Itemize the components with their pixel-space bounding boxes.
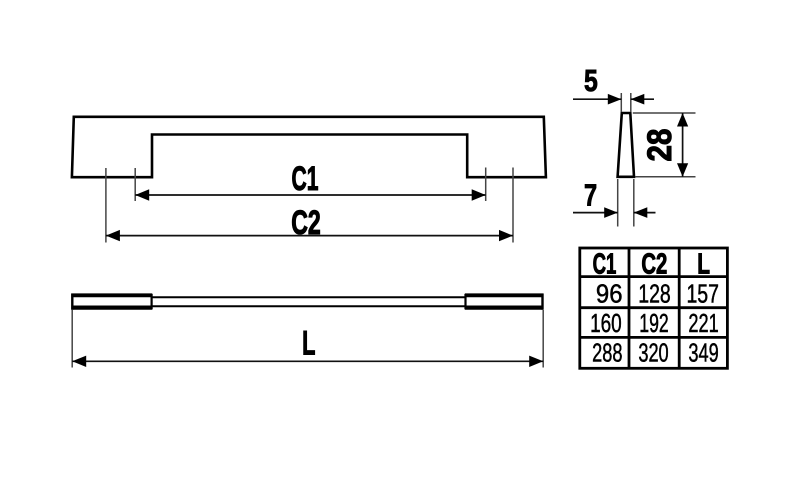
table row divider 1 [580,275,728,278]
dimension line 5 left segment [573,98,621,100]
extension line L right [542,310,544,368]
plan view right foot inner step [464,294,466,309]
table column divider 2 [678,248,681,368]
svg-text:96: 96 [596,280,623,309]
dimension line C2 [106,235,513,237]
table cell 288 [592,338,622,367]
plan view right foot top line [465,293,544,297]
dimension line 5 right segment [631,98,654,100]
svg-text:5: 5 [584,63,598,97]
label 5 [584,63,598,97]
table row divider 3 [580,336,728,339]
dimension line 28 [682,113,684,177]
plan view right foot end edge [541,294,543,310]
table cell 160 [590,308,622,338]
extension line 5 right [630,93,632,112]
svg-text:320: 320 [638,338,668,367]
arrow C2 left [106,230,120,241]
dimension line L [72,360,543,362]
svg-text:C1: C1 [292,159,319,197]
arrow 7 left [604,207,618,218]
table cell 221 [688,309,718,338]
extension line 5 left [620,93,622,112]
extension line C1 left [134,168,136,201]
svg-text:128: 128 [638,279,671,308]
handle front view outline [72,117,546,177]
table row divider 2 [580,306,728,309]
label L [302,325,315,363]
extension line 7 left [617,179,619,227]
table header C2 [641,248,667,280]
arrow 5 right [631,94,645,105]
arrow C1 right [472,189,486,200]
dimension line 7 right segment [634,212,656,214]
table column divider 1 [628,248,631,368]
extension line C2 left [105,168,107,243]
table outer border [580,248,728,368]
table cell 192 [639,309,668,338]
arrow L right [529,356,543,367]
table cell 157 [686,279,719,308]
plan view right foot bottom line [465,306,544,310]
table cell 320 [638,338,668,367]
side view trapezoid profile [618,113,634,177]
arrow 7 right [634,207,648,218]
arrow 28 bottom [677,163,688,177]
label 28 (rotated) [640,129,678,162]
extension line 28 bottom [635,176,696,178]
table cell 349 [688,338,718,367]
svg-text:160: 160 [590,308,622,338]
label 7 [584,177,597,212]
dimension line C1 [135,194,486,196]
table cell 128 [638,279,671,308]
plan view left foot inner step [151,294,153,309]
svg-text:221: 221 [688,309,718,338]
extension line C1 right [485,168,487,202]
plan view left foot end edge [71,294,73,310]
arrow C2 right [499,230,513,241]
svg-text:C2: C2 [641,248,667,280]
extension line 28 top [633,112,696,114]
table header C1 [593,248,617,280]
svg-text:7: 7 [584,177,597,212]
plan view left foot bottom line [71,306,152,310]
svg-text:349: 349 [688,338,718,367]
arrow C1 left [135,189,149,200]
svg-text:C1: C1 [593,248,617,280]
svg-text:L: L [302,325,315,363]
svg-text:157: 157 [686,279,719,308]
plan view left foot top line [71,293,152,297]
plan view middle tube bottom line [152,305,465,307]
svg-text:L: L [697,248,710,280]
table cell 96 [596,280,623,309]
label C2 [291,205,321,242]
table header L [697,248,710,280]
arrow 28 top [677,113,688,127]
extension line 7 right [633,179,635,227]
svg-text:288: 288 [592,338,622,367]
svg-text:192: 192 [639,309,668,338]
label C1 [292,159,319,197]
svg-text:28: 28 [640,129,678,162]
dimension line 7 left segment [573,212,618,214]
extension line L left [71,310,73,368]
svg-text:C2: C2 [291,205,321,242]
arrow L left [72,356,86,367]
arrow 5 left [608,94,622,105]
extension line C2 right [512,168,514,243]
plan view middle tube top line [152,296,465,298]
